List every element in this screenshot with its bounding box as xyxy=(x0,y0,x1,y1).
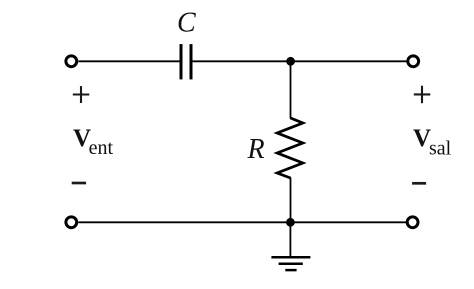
plus sign (output polarity) xyxy=(414,86,431,104)
svg-text:R: R xyxy=(247,134,265,165)
wire: node B down to ground xyxy=(289,222,291,257)
svg-text:sal: sal xyxy=(429,138,452,160)
svg-text:ent: ent xyxy=(89,137,114,159)
wire: resistor bottom to node B xyxy=(290,178,292,223)
terminal output top (open circle) xyxy=(408,56,419,67)
terminal input top (open circle) xyxy=(66,56,77,67)
svg-text:C: C xyxy=(177,8,196,39)
wire bottom: input terminal to output terminal through node B xyxy=(78,221,406,223)
capacitor C1 left plate xyxy=(180,44,183,79)
wire top-right: capacitor to output terminal through node A xyxy=(192,60,406,62)
resistor R1 zigzag xyxy=(277,118,303,178)
minus sign (input polarity) xyxy=(72,182,86,185)
wire: node A down to resistor top xyxy=(290,61,292,118)
wire top-left: input terminal to capacitor xyxy=(78,60,180,62)
ground symbol xyxy=(271,257,310,270)
node B junction dot (bottom) xyxy=(286,218,295,227)
node A junction dot (top) xyxy=(286,57,295,66)
capacitor C1 right plate xyxy=(190,44,193,79)
minus sign (output polarity) xyxy=(412,182,426,185)
terminal input bottom (open circle) xyxy=(66,217,77,228)
plus sign (input polarity) xyxy=(73,86,90,103)
terminal output bottom (open circle) xyxy=(407,217,418,228)
